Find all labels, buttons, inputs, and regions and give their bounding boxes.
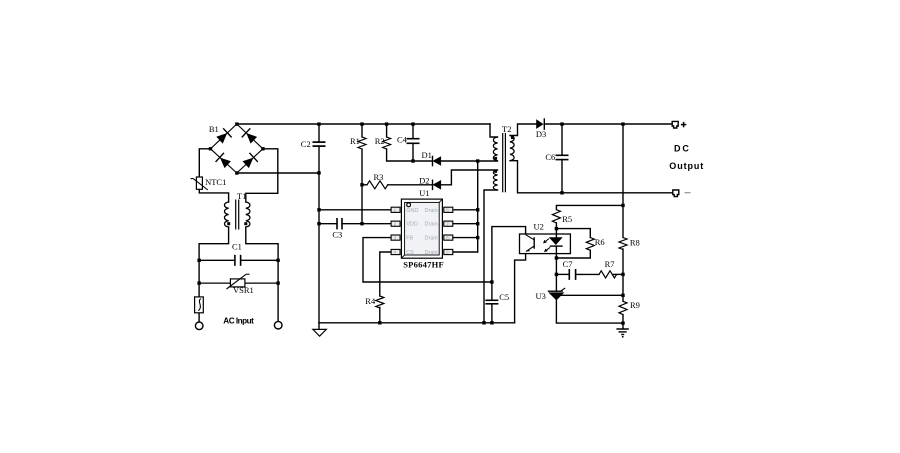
wire bridge left vertex to NTC [199, 149, 210, 177]
wire C5 bottom lead [491, 304, 493, 323]
wire R2 top lead [386, 124, 388, 137]
pin 1 [391, 207, 400, 212]
wire GND pin [319, 209, 391, 211]
svg-text:AC Input: AC Input [223, 316, 254, 325]
svg-text:Output: Output [669, 161, 704, 171]
capacitor C1 [199, 242, 278, 266]
svg-text:C5: C5 [499, 292, 509, 302]
pin 3 [391, 235, 400, 240]
capacitor C5 [485, 292, 509, 304]
svg-text:U3: U3 [536, 291, 546, 301]
shunt regulator U3 [536, 288, 566, 301]
capacitor C3 [332, 218, 342, 240]
wire fuse to AC terminal [198, 313, 200, 322]
wire NTC to T1 left [199, 189, 228, 202]
terminal DC minus [673, 190, 691, 197]
svg-text:Drain: Drain [425, 250, 438, 256]
wire U3 ref [560, 294, 623, 296]
resistor R5 [552, 210, 572, 224]
capacitor C2 [301, 139, 326, 149]
wire T1 left bottom [199, 227, 229, 297]
svg-text:R8: R8 [630, 237, 640, 247]
svg-text:U1: U1 [419, 188, 429, 198]
wire drain bus [477, 161, 479, 252]
pin 2 [391, 221, 400, 226]
svg-text:R2: R2 [375, 136, 385, 146]
diode D1 [422, 150, 442, 167]
capacitor C6 [545, 152, 568, 162]
AC terminal left [195, 322, 203, 330]
svg-text:R7: R7 [605, 259, 615, 269]
svg-text:Drain: Drain [425, 208, 438, 214]
svg-text:FB: FB [406, 236, 413, 242]
wire R8 to R9 rail [622, 249, 624, 301]
svg-text:D1: D1 [422, 150, 432, 160]
svg-text:T2: T2 [502, 124, 511, 134]
wire left rail below C2 [318, 146, 320, 323]
svg-text:Drain: Drain [425, 222, 438, 228]
ground secondary earth [616, 329, 628, 338]
svg-text:C4: C4 [397, 134, 408, 144]
svg-text:B1: B1 [209, 124, 219, 134]
wire R4 bottom lead [379, 307, 381, 322]
diode D3 [536, 118, 546, 139]
svg-text:R9: R9 [630, 300, 640, 310]
ground primary triangle [313, 329, 326, 336]
optocoupler U2 [520, 222, 571, 254]
wire drain pin stubs [453, 209, 478, 211]
svg-text:U2: U2 [534, 222, 544, 232]
thermistor NTC1 [191, 177, 227, 190]
svg-text:D3: D3 [536, 129, 546, 139]
varistor VSR1 [199, 274, 278, 295]
svg-text:Drain: Drain [425, 236, 438, 242]
wire R2 bottom jog [387, 149, 433, 161]
svg-text:R6: R6 [595, 237, 605, 247]
pin 6 [444, 235, 453, 240]
resistor R9 [619, 300, 640, 315]
svg-text:C1: C1 [232, 242, 242, 252]
svg-text:R5: R5 [562, 214, 572, 224]
terminal DC plus [672, 121, 686, 128]
diode D2 [419, 175, 441, 190]
svg-text:R4: R4 [365, 296, 376, 306]
svg-text:R1: R1 [350, 136, 360, 146]
resistor R3 [367, 172, 388, 189]
wire C6 leads [561, 124, 563, 155]
wire D3 to output plus [544, 123, 672, 125]
svg-text:D C: D C [674, 143, 689, 153]
wire R5 feed [556, 205, 623, 209]
wire plus rail down [622, 124, 624, 238]
svg-text:T1: T1 [237, 191, 246, 201]
wire LED cathode chain [555, 246, 557, 291]
svg-text:C7: C7 [563, 259, 573, 269]
pin 4 [391, 249, 400, 254]
wire output minus [510, 161, 673, 193]
resistor R7 [599, 259, 617, 278]
pin 5 [444, 249, 453, 254]
pin 8 [444, 207, 453, 212]
svg-text:C6: C6 [545, 152, 555, 162]
wire C7 R7 branch [556, 273, 569, 275]
wire secondary top jog [510, 124, 536, 136]
wire R1 bottom to VDD line [361, 149, 363, 224]
wire ground stub [318, 323, 320, 330]
wire R3 row / D2 [362, 184, 367, 186]
wire C4 leads [412, 124, 414, 139]
wire primary ground bus [319, 322, 515, 324]
wire R6 branch [556, 229, 590, 238]
resistor R4 [365, 296, 384, 308]
wire bridge right vertex to T1 right [246, 149, 278, 202]
wire opto collector to FB node [492, 227, 526, 301]
wire bridge bottom to rail [237, 172, 319, 174]
transformer T2 [493, 124, 514, 193]
wire CS pin to R4 [380, 252, 391, 296]
junction dots [197, 122, 624, 324]
wire T1 right bottom [246, 227, 278, 321]
wire FB pin route [363, 238, 492, 282]
capacitor C4 [397, 134, 420, 144]
wire R5 bottom to LED anode [555, 223, 557, 237]
wire aux return [484, 190, 498, 323]
resistor R1 [350, 136, 366, 149]
svg-text:NTC1: NTC1 [205, 177, 226, 187]
pin 7 [444, 221, 453, 226]
svg-text:D2: D2 [419, 175, 429, 185]
capacitor C7 [563, 259, 576, 280]
svg-text:R3: R3 [374, 172, 384, 182]
wire R1 top lead [361, 124, 363, 137]
op-amp U1 chip SP6647HF [391, 188, 453, 269]
fuse [195, 297, 204, 313]
bridge rectifier B1 [209, 124, 263, 173]
wire top bus primary [237, 123, 490, 125]
resistor R2 [375, 136, 391, 149]
svg-text:VSR1: VSR1 [233, 285, 254, 295]
wire left rail C2 top lead [318, 124, 320, 142]
wire T2 primary top jog [490, 124, 498, 137]
svg-text:GND: GND [406, 208, 418, 214]
resistor R6 [586, 237, 604, 250]
wire VDD pin with C3 [319, 223, 337, 225]
wire D2 to aux winding [441, 170, 497, 185]
wire R9 bottom to ground [622, 315, 624, 329]
resistor R8 [619, 237, 640, 249]
svg-text:C2: C2 [301, 139, 311, 149]
AC terminal right [274, 321, 282, 329]
svg-text:VDD: VDD [406, 222, 418, 228]
wire U3 anode to ground bus [556, 300, 623, 323]
wire opto emitter to primary ground [515, 254, 526, 323]
svg-text:CS: CS [406, 250, 414, 256]
svg-text:C3: C3 [332, 230, 342, 240]
transformer T1 common mode choke [224, 191, 249, 230]
wire D1 to drain bus and primary [441, 160, 497, 162]
svg-text:SP6647HF: SP6647HF [403, 259, 444, 269]
